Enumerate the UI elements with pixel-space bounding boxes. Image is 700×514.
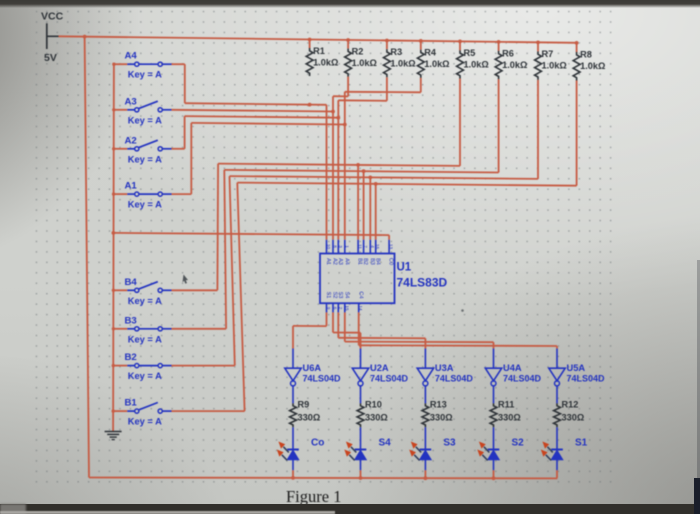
label A1 Key = A	[128, 200, 162, 210]
label U6A	[303, 363, 322, 373]
junction common rail at A2	[112, 147, 115, 150]
wire R10 to LED	[360, 427, 362, 449]
U1 pin number 3	[338, 245, 343, 248]
label U3A type 74LS04D	[435, 374, 474, 384]
svg-text:1.0kΩ: 1.0kΩ	[580, 61, 605, 71]
wire rail stub to R4	[420, 41, 422, 50]
LED S2 diode	[488, 450, 500, 471]
wire bottom rail	[89, 477, 557, 480]
U1 pin name S2	[332, 292, 338, 299]
U1 pin number 7	[363, 245, 368, 248]
resistor R2	[345, 49, 352, 77]
wire net A4 from switch	[172, 64, 185, 103]
switch A2	[127, 140, 171, 151]
svg-text:R2: R2	[352, 47, 364, 57]
wire net A2 from switch	[172, 116, 185, 149]
wire R7 drop	[537, 80, 539, 179]
wire net S3out to U3A	[338, 312, 425, 348]
label R4	[424, 47, 437, 57]
svg-text:13: 13	[389, 244, 394, 250]
label U4A	[503, 363, 522, 373]
wire U2A output	[360, 386, 362, 404]
label R3	[390, 47, 402, 57]
label R5	[464, 48, 476, 58]
wire net A4 riser to U1	[326, 105, 328, 240]
svg-text:A3: A3	[125, 96, 137, 107]
svg-text:330Ω: 330Ω	[498, 413, 521, 423]
wire R6 drop	[498, 79, 500, 172]
svg-text:R3: R3	[390, 47, 402, 57]
label B1	[125, 398, 138, 409]
wire U4A output	[493, 386, 495, 404]
svg-text:B4: B4	[374, 258, 380, 265]
junction top rail at left rail	[83, 35, 87, 39]
wire rail stub to R3	[386, 41, 388, 50]
resistor R4	[417, 50, 424, 78]
resistor R3	[384, 49, 391, 77]
wire net B4 riser up	[216, 164, 219, 291]
svg-text:9: 9	[326, 307, 331, 310]
label R6 value 1.0kΩ	[502, 60, 527, 70]
wire net B3 drop to U1	[363, 171, 365, 240]
wire left vertical rail	[85, 37, 89, 478]
wire net A4 horizontal	[185, 103, 327, 105]
wire U6A output	[292, 386, 294, 404]
svg-text:R1: R1	[313, 46, 325, 56]
LED S2 arrows	[477, 442, 489, 461]
U1 pin number 4	[370, 245, 375, 248]
wire rail stub to R2	[347, 40, 349, 49]
junction common rail at A4	[112, 62, 115, 65]
wire net B4 drop to U1	[357, 165, 359, 240]
svg-text:VCC: VCC	[41, 11, 64, 23]
label A2 Key = A	[128, 154, 162, 164]
svg-text:3: 3	[338, 245, 343, 248]
junction A3 riser	[331, 110, 335, 114]
junction A2 riser	[336, 116, 340, 120]
svg-text:S1: S1	[325, 292, 331, 299]
resistor R1	[306, 48, 313, 76]
svg-text:1: 1	[344, 245, 349, 248]
svg-text:C4: C4	[357, 291, 363, 298]
wire LED Co to bottom rail	[292, 470, 294, 478]
wire R5 drop	[459, 79, 461, 166]
switch A1	[127, 192, 171, 196]
svg-text:2: 2	[338, 307, 343, 310]
label B2 Key = A	[128, 371, 162, 381]
U1 pin name C0	[388, 258, 394, 265]
junction A1 riser	[343, 123, 347, 127]
switch B2	[127, 364, 171, 368]
svg-text:74LS04D: 74LS04D	[503, 374, 542, 384]
svg-text:330Ω: 330Ω	[430, 413, 453, 423]
ground	[105, 432, 122, 440]
U1 pin name C4	[357, 291, 363, 298]
svg-text:A1: A1	[325, 258, 331, 265]
label R12 value 330Ω	[562, 413, 585, 423]
svg-text:1.0kΩ: 1.0kΩ	[502, 60, 527, 70]
wire rail stub to R5	[459, 41, 461, 50]
svg-text:S4: S4	[379, 438, 392, 449]
resistor R6	[495, 51, 502, 79]
speck near U1	[461, 309, 464, 312]
svg-text:Key = A: Key = A	[128, 115, 162, 125]
label U6A type 74LS04D	[303, 374, 342, 384]
label R9 value 330Ω	[298, 413, 321, 423]
wire net A3 horizontal	[172, 110, 334, 112]
label R12	[562, 400, 579, 410]
grid dot field	[33, 5, 620, 489]
label U1	[397, 262, 412, 274]
svg-text:4: 4	[370, 245, 375, 248]
svg-text:16: 16	[375, 244, 380, 250]
wire net C0 drop to U1	[388, 235, 390, 240]
svg-text:S3: S3	[337, 292, 343, 299]
U1 bottom pin S4	[344, 303, 346, 312]
svg-text:A3: A3	[337, 258, 343, 265]
U1 pin number 1	[344, 245, 349, 248]
wire R2 drop	[333, 77, 348, 97]
resistor R5	[457, 50, 464, 78]
U1 top pin A2	[332, 240, 334, 254]
wire feed B2	[113, 365, 127, 367]
U1 bottom pin S2	[332, 303, 334, 312]
junction bottom rail at S4	[359, 476, 363, 480]
label A3	[125, 96, 137, 107]
LED S4 arrows	[344, 442, 356, 461]
label U5A	[567, 363, 586, 373]
svg-text:A2: A2	[332, 258, 338, 265]
wire feed A3	[114, 109, 128, 111]
U1 pin name A1	[325, 258, 331, 265]
svg-text:U5A: U5A	[567, 363, 586, 373]
label U3A	[435, 363, 454, 373]
svg-text:1.0kΩ: 1.0kΩ	[313, 58, 338, 68]
svg-text:11: 11	[358, 244, 363, 249]
label R6	[502, 49, 514, 59]
label R2 value 1.0kΩ	[352, 58, 377, 68]
label 5V	[44, 52, 57, 64]
U1 bottom pin C4	[358, 303, 360, 312]
svg-text:74LS04D: 74LS04D	[567, 374, 606, 384]
U1 pin name S4	[343, 292, 349, 299]
switch A4	[127, 62, 171, 66]
label R11	[498, 400, 514, 410]
junction common rail at A3	[112, 108, 115, 111]
wire rail stub to R7	[537, 42, 539, 51]
wire feed A2	[114, 148, 128, 150]
junction B2 at U1 drop	[368, 176, 372, 180]
svg-text:U3A: U3A	[435, 363, 454, 373]
label A2	[125, 135, 137, 146]
wire feed B1	[113, 410, 127, 412]
resistor R7	[535, 51, 542, 80]
power VCC symbol	[47, 23, 59, 49]
photo right edge dark sliver	[694, 478, 700, 514]
photo bottom dark edge	[0, 504, 700, 514]
svg-text:Co: Co	[311, 438, 324, 449]
wire LED S1 to bottom rail	[556, 470, 558, 478]
svg-text:S2: S2	[512, 438, 525, 449]
cursor speck	[182, 275, 188, 284]
svg-text:U6A: U6A	[303, 363, 322, 373]
wire switch common vertical	[112, 64, 115, 431]
svg-text:14: 14	[358, 305, 363, 311]
op-amp inverter U2A	[352, 368, 368, 386]
label R4 value 1.0kΩ	[424, 59, 449, 69]
inverter U5A input stub	[556, 349, 558, 369]
junction common rail at B3	[112, 327, 115, 330]
switch B4	[127, 282, 171, 293]
svg-text:330Ω: 330Ω	[562, 413, 585, 423]
U1 pin name A3	[337, 258, 343, 265]
wire rail stub to R8	[576, 43, 578, 52]
svg-text:Key = A: Key = A	[128, 154, 162, 164]
svg-text:7: 7	[363, 245, 368, 248]
U1 top pin C0	[388, 240, 390, 254]
resistor R10	[357, 403, 364, 427]
resistor R8	[573, 52, 580, 81]
label R7	[542, 49, 554, 59]
svg-text:8: 8	[333, 245, 338, 248]
junction top rail at R7	[536, 41, 540, 45]
LED Co arrows	[277, 442, 289, 461]
U1 top pin A4	[344, 240, 346, 254]
svg-text:Key = A: Key = A	[128, 296, 162, 306]
U1 pin number 15	[344, 305, 349, 311]
svg-text:R9: R9	[298, 400, 310, 410]
svg-text:R8: R8	[580, 50, 592, 60]
label VCC	[41, 11, 64, 23]
wire R11 to LED	[493, 427, 495, 449]
resistor R12	[554, 403, 561, 427]
label B1 Key = A	[128, 417, 162, 427]
switch B1	[127, 403, 171, 414]
wire R13 to LED	[424, 427, 426, 449]
wire net B2 band horizontal	[230, 176, 539, 179]
svg-text:1.0kΩ: 1.0kΩ	[542, 61, 567, 71]
inverter U2A input stub	[360, 349, 362, 369]
U1 top pin B4	[375, 240, 377, 254]
U1 pin name A2	[332, 258, 338, 265]
label A4	[125, 51, 138, 62]
svg-text:U2A: U2A	[370, 363, 389, 373]
svg-text:74LS83D: 74LS83D	[397, 276, 448, 290]
LED S3 arrows	[409, 442, 421, 461]
label U5A type 74LS04D	[567, 374, 606, 384]
U1 pin name B3	[369, 258, 375, 265]
junction A4-R1	[308, 103, 312, 107]
wire R9 to LED	[292, 427, 294, 449]
svg-text:Key = A: Key = A	[128, 371, 162, 381]
LED Co diode	[287, 450, 299, 471]
op-amp U1 74LS83D box	[320, 254, 395, 304]
label U2A	[370, 363, 389, 373]
junction top rail at R5	[458, 40, 462, 44]
U1 pin number 16	[375, 244, 380, 250]
junction common rail at B2	[112, 364, 115, 367]
wire top VCC rail	[59, 36, 577, 43]
junction common rail at B1	[112, 409, 115, 412]
LED S4 diode	[355, 450, 367, 471]
svg-text:330Ω: 330Ω	[298, 413, 321, 423]
svg-text:S2: S2	[332, 292, 338, 299]
wire net B2 drop to U1	[369, 177, 371, 239]
label R8 value 1.0kΩ	[580, 61, 605, 71]
junction B4 at U1 drop	[356, 163, 360, 167]
svg-text:Key = A: Key = A	[128, 334, 162, 344]
wire net B3 riser up	[224, 170, 226, 329]
svg-text:B3: B3	[125, 315, 137, 326]
wire rail stub to R1	[309, 40, 311, 49]
wire U3A output	[424, 386, 426, 404]
wire net A3 riser to U1	[332, 96, 334, 240]
U1 pin name B1	[357, 258, 363, 265]
svg-text:B1: B1	[357, 258, 363, 265]
svg-text:74LS04D: 74LS04D	[303, 374, 342, 384]
label R8	[580, 50, 592, 60]
label U4A type 74LS04D	[503, 374, 542, 384]
wire R4 drop	[345, 78, 421, 92]
svg-text:1.0kΩ: 1.0kΩ	[464, 60, 489, 70]
junction top rail at R1	[308, 38, 312, 42]
inverter U4A input stub	[493, 349, 495, 369]
resistor R9	[290, 403, 297, 427]
label A4 Key = A	[128, 70, 162, 80]
svg-text:74LS04D: 74LS04D	[435, 374, 474, 384]
svg-text:330Ω: 330Ω	[365, 413, 388, 423]
svg-text:R13: R13	[430, 400, 447, 410]
wire feed A4	[114, 63, 127, 65]
svg-text:Key = A: Key = A	[128, 417, 162, 427]
label R9	[298, 400, 310, 410]
LED S1 arrows	[541, 442, 553, 461]
label R7 value 1.0kΩ	[542, 61, 567, 71]
junction top rail at R4	[419, 39, 423, 43]
label R11 value 330Ω	[498, 413, 521, 423]
U1 pin number 11	[358, 244, 363, 249]
wire LED S2 to bottom rail	[493, 470, 495, 478]
U1 top pin B1	[357, 240, 359, 254]
LED S1 diode	[551, 450, 563, 471]
U1 bottom pin S1	[326, 303, 328, 312]
inverter U3A input stub	[424, 349, 426, 369]
junction bottom rail at Co	[291, 476, 295, 480]
svg-text:R5: R5	[464, 48, 476, 58]
U1 pin number 8	[333, 245, 338, 248]
label B3	[125, 315, 137, 326]
junction common rail at B4	[112, 289, 115, 292]
svg-text:R6: R6	[502, 49, 514, 59]
junction C0 at common rail	[112, 231, 116, 235]
wire R3 drop	[338, 77, 387, 101]
U1 pin name S3	[337, 292, 343, 299]
svg-text:B3: B3	[369, 258, 375, 265]
junction B1 at U1 drop	[374, 182, 378, 186]
wire net B2 riser up	[230, 176, 235, 366]
svg-text:A4: A4	[343, 258, 349, 265]
svg-text:A1: A1	[125, 181, 138, 192]
svg-text:R12: R12	[562, 400, 579, 410]
svg-text:Key = A: Key = A	[128, 70, 162, 80]
svg-text:B2: B2	[125, 352, 137, 363]
label R10 value 330Ω	[365, 413, 388, 423]
svg-text:5V: 5V	[44, 52, 57, 64]
wire net B1 riser up	[237, 183, 244, 412]
wire LED S3 to bottom rail	[424, 470, 426, 478]
U1 top pin B3	[369, 240, 371, 254]
svg-text:U4A: U4A	[503, 363, 522, 373]
label R13 value 330Ω	[430, 413, 453, 423]
svg-text:Key = A: Key = A	[128, 200, 162, 210]
svg-text:R4: R4	[424, 47, 437, 57]
label R1	[313, 46, 325, 56]
wire net S4out to U4A	[345, 312, 494, 348]
label LED S1	[575, 438, 588, 449]
svg-text:A4: A4	[125, 51, 138, 62]
svg-text:R7: R7	[542, 49, 554, 59]
svg-text:S3: S3	[443, 438, 456, 449]
svg-text:6: 6	[333, 307, 338, 310]
resistor R13	[422, 403, 429, 427]
wire feed A1	[114, 193, 128, 195]
svg-text:B1: B1	[125, 398, 138, 409]
U1 top pin B2	[363, 240, 365, 254]
op-amp inverter U6A	[285, 368, 301, 386]
junction common rail at A1	[112, 192, 115, 195]
wire net B2 from switch	[172, 365, 235, 367]
label LED Co	[311, 438, 324, 449]
U1 pin number 10	[326, 244, 331, 250]
wire net C0 ground line	[113, 233, 389, 235]
resistor R11	[490, 403, 497, 427]
U1 bottom pin S3	[337, 303, 339, 312]
junction top rail at R3	[385, 39, 389, 43]
svg-text:R10: R10	[365, 400, 382, 410]
junction bottom rail at S3	[424, 476, 428, 480]
svg-text:A2: A2	[125, 135, 137, 146]
op-amp inverter U5A	[549, 368, 565, 386]
photo top dark edge	[0, 0, 700, 8]
wire net B1 drop to U1	[375, 184, 377, 240]
svg-text:1.0kΩ: 1.0kΩ	[352, 58, 377, 68]
svg-text:C0: C0	[388, 258, 394, 265]
U1 pin number 13	[389, 244, 394, 250]
svg-text:15: 15	[344, 305, 349, 311]
junction top rail at R8	[575, 41, 579, 45]
U1 top pin A3	[337, 240, 339, 254]
svg-text:1.0kΩ: 1.0kΩ	[390, 59, 415, 69]
wire LED S4 to bottom rail	[360, 470, 362, 478]
wire net B4 band horizontal	[218, 164, 460, 166]
label R2	[352, 47, 364, 57]
svg-text:10: 10	[326, 244, 331, 250]
label U1 type 74LS83D	[397, 276, 448, 290]
wire net A1 riser to U1	[344, 92, 346, 240]
svg-text:B2: B2	[362, 258, 368, 265]
op-amp inverter U4A	[485, 368, 501, 386]
junction B3 at U1 drop	[362, 169, 366, 173]
U1 pin name S1	[325, 292, 331, 299]
label R5 value 1.0kΩ	[464, 60, 489, 70]
svg-text:B4: B4	[125, 277, 138, 288]
label U2A type 74LS04D	[370, 374, 409, 384]
U1 pin number 6	[333, 307, 338, 310]
U1 pin name B2	[362, 258, 368, 265]
label LED S2	[512, 438, 525, 449]
wire feed B4	[113, 289, 127, 291]
label R3 value 1.0kΩ	[390, 59, 415, 69]
